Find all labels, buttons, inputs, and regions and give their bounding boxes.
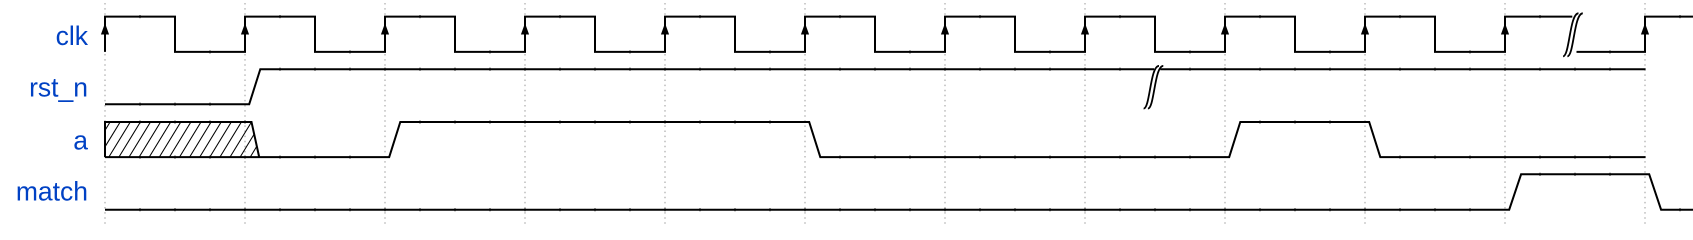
signal rst_n waveform: low, rises at 2nd clock edge, high with gap <box>105 69 1154 104</box>
clk gap (timeline break) <box>1563 13 1583 56</box>
rst_n gap (timeline break) <box>1144 66 1164 109</box>
svg-text:match: match <box>16 177 88 207</box>
signal name labels <box>16 21 89 207</box>
rst_n brick-joint ticks <box>140 68 1610 106</box>
svg-text:a: a <box>73 125 88 155</box>
match brick-joint ticks <box>140 173 1680 212</box>
signal match: low, single high pulse near the end <box>105 174 1693 209</box>
clk rising-edge arrowheads <box>101 23 1649 34</box>
signal clk waveform: 12 clock periods, rising-edge arrows, gap before last edge <box>105 17 1572 52</box>
a brick-joint ticks <box>140 120 1610 158</box>
clk brick-joint ticks <box>140 15 1680 54</box>
svg-text:rst_n: rst_n <box>29 73 88 103</box>
a waveform line <box>105 122 1646 157</box>
a x-state box outline <box>105 122 259 157</box>
svg-text:clk: clk <box>56 21 89 51</box>
